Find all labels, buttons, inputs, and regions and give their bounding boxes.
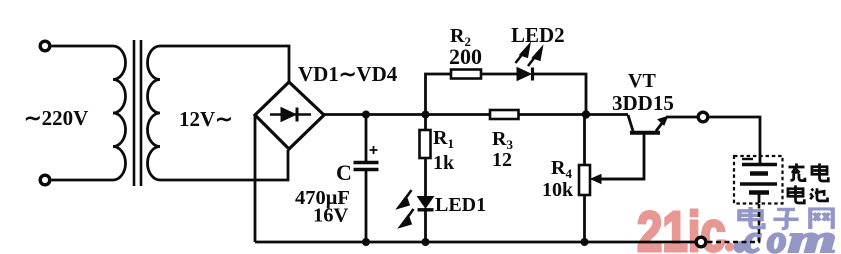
terminal output top	[698, 112, 708, 122]
wire emitter to output	[666, 116, 697, 119]
wire LED2 to right branch	[533, 74, 587, 115]
svg-text:10k: 10k	[542, 179, 574, 201]
svg-text:VD1∼VD4: VD1∼VD4	[298, 62, 398, 86]
watermark char zi blue	[773, 209, 798, 228]
resistor R1	[420, 130, 431, 158]
wire R4 top	[583, 115, 586, 166]
label dian (electric) top	[812, 163, 828, 181]
positive rail right segment	[518, 113, 628, 116]
capacitor C plates	[354, 161, 379, 165]
resistor R2	[451, 70, 481, 79]
svg-text:21ic: 21ic	[637, 199, 726, 254]
junction cap top	[362, 111, 370, 119]
transistor VT base bar	[630, 131, 660, 135]
transformer core line 1	[133, 40, 136, 186]
LED2 diode	[517, 68, 531, 81]
svg-text:12V∼: 12V∼	[179, 107, 233, 131]
wire R1 to LED1	[424, 158, 427, 197]
svg-text:LED1: LED1	[435, 194, 486, 216]
wire secondary top to bridge	[160, 46, 289, 82]
battery plate short 1	[750, 171, 768, 175]
watermark char wang blue	[810, 209, 832, 229]
transformer core line 2	[140, 40, 143, 186]
terminal input top	[40, 41, 50, 51]
label chong (charge)	[789, 163, 805, 180]
watermark 21ic	[637, 199, 726, 254]
svg-text:3DD15: 3DD15	[612, 91, 674, 115]
svg-text:LED2: LED2	[511, 23, 565, 47]
transformer T1 secondary winding	[147, 46, 160, 180]
junction cap bottom	[362, 238, 370, 246]
capacitor plus sign	[370, 146, 378, 154]
watermark .com	[744, 218, 837, 254]
wire input top	[52, 45, 114, 48]
watermark blue period	[734, 241, 746, 253]
bridge diode symbol	[270, 108, 311, 122]
wire branch up to R2	[426, 74, 452, 115]
wire output to battery top	[710, 117, 761, 156]
wire secondary bottom to bridge	[160, 150, 288, 180]
svg-text:200: 200	[449, 44, 482, 69]
svg-text:12: 12	[492, 149, 512, 171]
battery plus tick	[742, 158, 753, 160]
wire R4 bottom	[583, 195, 586, 242]
svg-text:C: C	[336, 160, 352, 185]
terminal output bottom	[696, 237, 706, 247]
label chi (pool)	[810, 188, 827, 201]
battery box dashed	[734, 156, 783, 204]
LED1 emission arrows	[399, 190, 414, 227]
svg-text:16V: 16V	[313, 205, 349, 227]
svg-text:VT: VT	[628, 70, 656, 92]
wire R2 to LED2	[481, 73, 517, 76]
label dian (electric) bottom	[788, 185, 804, 203]
svg-text:∼220V: ∼220V	[24, 106, 88, 130]
transistor VT base lead	[598, 134, 644, 179]
potentiometer R4	[579, 165, 590, 195]
battery plate long 2	[740, 182, 777, 185]
wire LED1 bottom	[424, 208, 427, 242]
dashed wire bottom to battery	[708, 204, 760, 242]
battery plate short 2	[749, 190, 769, 194]
transistor VT emitter	[656, 117, 668, 132]
wire bridge left corner to bottom rail	[254, 115, 257, 242]
bridge rectifier VD1~VD4 diamond	[255, 82, 324, 149]
svg-text:o: o	[767, 218, 787, 254]
watermark char dian (electric) blue	[739, 207, 763, 228]
junction R4 bottom	[581, 238, 589, 246]
battery plate long 1	[742, 163, 777, 166]
junction LED1 bottom	[422, 238, 430, 246]
resistor R3	[490, 110, 519, 119]
watermark red period	[725, 242, 734, 251]
R4 wiper arrow	[591, 175, 644, 184]
terminal input bottom	[40, 175, 50, 185]
LED1 diode	[418, 197, 434, 209]
wire R1 top	[424, 115, 427, 131]
bottom rail	[255, 241, 696, 244]
capacitor C wires	[365, 115, 368, 162]
battery GB wires	[759, 156, 762, 164]
positive rail left segment	[324, 113, 490, 116]
transformer T1 primary winding	[113, 46, 126, 180]
LED2 emission arrows	[516, 46, 542, 67]
junction R1/LED2 top	[422, 111, 430, 119]
wire input bottom	[52, 179, 114, 182]
junction R4 top	[582, 110, 590, 118]
svg-text:1k: 1k	[433, 152, 455, 174]
wire rail to collector	[628, 115, 633, 131]
